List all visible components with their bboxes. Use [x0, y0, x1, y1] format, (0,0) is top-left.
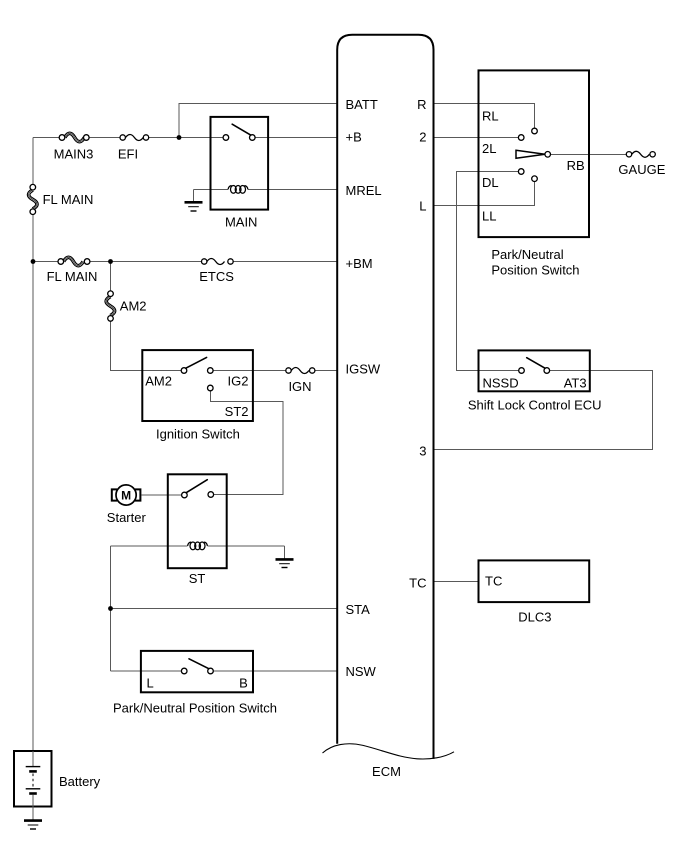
wire IG2 to ECM IGSW [210, 370, 337, 372]
ground (battery) [24, 821, 42, 829]
wire DL to shift lock NSSD [457, 172, 522, 371]
shift lock blade [527, 358, 545, 369]
svg-text:R: R [417, 97, 426, 112]
ground (MAIN relay coil) [185, 190, 203, 212]
wire STA (junction to ECM STA) [110, 546, 112, 671]
svg-text:3: 3 [419, 444, 426, 459]
NSW switch contact B [208, 668, 214, 674]
svg-text:FL MAIN: FL MAIN [43, 192, 94, 207]
wire MREL (ground via coil to ECM MREL) [194, 189, 338, 191]
park/neutral position switch (NSW) box [141, 651, 253, 692]
wire NSW right segment to ECM NSW [211, 670, 338, 672]
svg-text:STA: STA [346, 602, 371, 617]
wire BATT branch (node B+ to ECM BATT) [179, 104, 337, 138]
wire STA horizontal [111, 608, 338, 610]
shift lock contact NSSD [519, 368, 525, 374]
svg-text:B: B [239, 676, 248, 691]
svg-text:Battery: Battery [59, 774, 101, 789]
shift lock contact AT3 [544, 368, 550, 374]
wire R (ECM R to RL contact) [434, 104, 535, 132]
svg-text:L: L [147, 676, 154, 691]
wire ST relay coil left to STA/NSW branch [111, 545, 188, 547]
relay ST blade [186, 480, 207, 493]
svg-text:Park/Neutral Position Switch: Park/Neutral Position Switch [113, 700, 277, 715]
svg-text:M: M [121, 488, 131, 502]
svg-text:FL MAIN: FL MAIN [47, 269, 98, 284]
junction node +BM row / AM2 drop [108, 259, 113, 264]
contact 2L [518, 135, 524, 141]
fuse IGN [286, 368, 315, 374]
svg-text:TC: TC [409, 576, 426, 591]
svg-text:MAIN3: MAIN3 [54, 147, 94, 162]
relay ST box [168, 474, 227, 568]
wire AT3 to ECM 3 [434, 371, 653, 450]
fuse EFI [120, 135, 149, 141]
DLC3 connector box [479, 560, 590, 602]
svg-text:+BM: +BM [346, 256, 373, 271]
svg-text:GAUGE: GAUGE [618, 162, 665, 177]
svg-text:Position Switch: Position Switch [491, 263, 579, 278]
NSW switch blade [189, 659, 209, 669]
svg-text:ST2: ST2 [225, 404, 249, 419]
svg-text:NSSD: NSSD [483, 376, 519, 391]
wire ST2 to ST relay contact [210, 388, 283, 495]
shift lock control ECU box [479, 350, 590, 391]
ECM connector box [337, 35, 433, 759]
wire NSW left segment [111, 670, 185, 672]
relay MAIN box [211, 117, 269, 210]
svg-text:+B: +B [346, 130, 362, 145]
ignition switch contact ST2 [208, 385, 214, 391]
wire +BM row (battery line to ECM +BM) [33, 261, 337, 263]
contact DL [518, 169, 524, 175]
ignition switch contact IG2 [208, 368, 214, 374]
svg-text:IGSW: IGSW [346, 362, 381, 377]
svg-text:DLC3: DLC3 [518, 610, 551, 625]
wire TC (ECM TC to DLC3) [434, 581, 479, 583]
wire left battery vertical (node B+) [32, 138, 34, 752]
relay MAIN blade [232, 124, 251, 135]
svg-text:Park/Neutral: Park/Neutral [491, 247, 563, 262]
svg-text:Starter: Starter [107, 510, 147, 525]
ignition switch blade [186, 357, 207, 368]
svg-text:NSW: NSW [346, 664, 377, 679]
park/neutral position switch (transmission) box [479, 70, 590, 237]
relay ST contact circles [182, 492, 188, 498]
svg-text:RB: RB [567, 158, 585, 173]
junction node at EFI/BATT branch [177, 135, 182, 140]
NSW switch contact L [181, 668, 187, 674]
wire 2 (ECM 2 to 2L contact) [434, 137, 522, 139]
junction node battery line / +BM row [31, 259, 36, 264]
relay MAIN coil [228, 186, 248, 194]
wire ST relay coil right to ground [207, 545, 284, 547]
svg-text:Ignition Switch: Ignition Switch [156, 427, 240, 442]
svg-text:AT3: AT3 [564, 376, 587, 391]
battery [14, 751, 52, 821]
junction node STA branch [108, 606, 113, 611]
svg-text:BATT: BATT [346, 97, 378, 112]
wire starter motor to ST relay contact [142, 494, 185, 496]
svg-text:EFI: EFI [118, 147, 138, 162]
svg-text:IGN: IGN [288, 379, 311, 394]
ignition switch contact AM2 [181, 368, 187, 374]
fusible link FL MAIN (vertical, battery line) [29, 184, 37, 214]
svg-text:TC: TC [485, 574, 502, 589]
contact RL [532, 128, 538, 134]
svg-text:ETCS: ETCS [199, 269, 234, 284]
svg-text:MREL: MREL [346, 183, 382, 198]
svg-text:IG2: IG2 [228, 373, 249, 388]
relay MAIN contact circles [223, 135, 229, 141]
svg-text:AM2: AM2 [120, 299, 147, 314]
wire MAIN relay contact to ECM +B [252, 137, 337, 139]
wire L (ECM L to LL contact) [434, 179, 535, 206]
ignition switch box [142, 350, 253, 421]
svg-text:2L: 2L [482, 141, 496, 156]
svg-text:2: 2 [419, 130, 426, 145]
svg-text:AM2: AM2 [145, 373, 172, 388]
common wedge contact RB [516, 150, 545, 158]
svg-text:Shift Lock Control ECU: Shift Lock Control ECU [468, 398, 602, 413]
svg-text:ECM: ECM [372, 764, 401, 779]
fusible link AM2 (vertical) [106, 291, 114, 321]
svg-text:ST: ST [189, 571, 206, 586]
starter motor M [112, 485, 141, 505]
fuse GAUGE [626, 151, 655, 157]
wire AM2 vertical (junction to ignition switch AM2) [111, 262, 185, 371]
fusible link MAIN3 [59, 133, 89, 141]
svg-text:L: L [419, 199, 426, 214]
svg-text:DL: DL [482, 175, 499, 190]
svg-text:RL: RL [482, 109, 499, 124]
wire RB to GAUGE fuse [548, 153, 629, 155]
relay ST coil [188, 542, 208, 550]
fuse ETCS [202, 259, 234, 265]
fusible link FL MAIN (horizontal, +BM row) [58, 257, 90, 265]
contact LL [532, 176, 538, 182]
ECM torn-edge wave [323, 744, 455, 759]
svg-text:MAIN: MAIN [225, 214, 258, 229]
wire +B feed (battery line to MAIN relay contact) [33, 137, 226, 139]
svg-text:LL: LL [482, 209, 496, 224]
ground (ST relay coil) [276, 546, 294, 568]
